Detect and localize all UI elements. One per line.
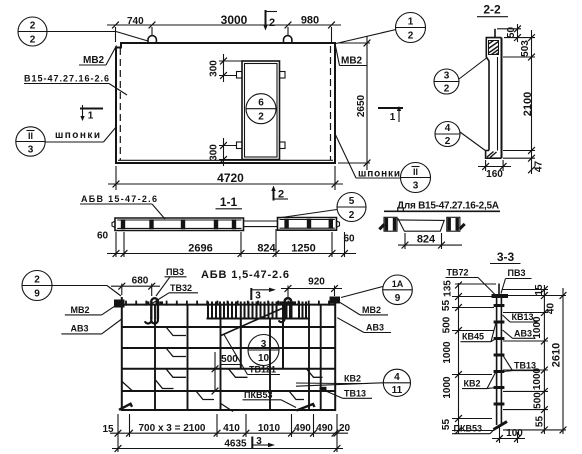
mesh cross-bar end ticks (top): [126, 301, 329, 306]
lintel band bottom bar: [207, 318, 310, 320]
svg-text:500: 500: [533, 392, 544, 409]
svg-text:МВ2: МВ2: [71, 305, 90, 315]
label TV32: [152, 283, 198, 304]
svg-text:2-2: 2-2: [483, 3, 501, 17]
svg-text:3: 3: [256, 436, 262, 447]
svg-text:20: 20: [339, 423, 351, 434]
label KV45: [461, 323, 497, 342]
svg-text:15: 15: [102, 424, 114, 435]
detail body (2,5A variant): [397, 218, 444, 231]
svg-text:60: 60: [97, 231, 109, 242]
lifting loop PV3 (left): [145, 298, 163, 323]
section mark 3 (bottom): [252, 436, 275, 448]
bottom dim extensions: [118, 414, 337, 452]
corner chamfer leader: [116, 32, 148, 42]
svg-text:2100: 2100: [522, 92, 534, 116]
svg-text:2696: 2696: [188, 243, 212, 255]
hidden edge dashed left: [119, 48, 121, 160]
svg-text:ТВ72: ТВ72: [447, 268, 469, 278]
title 2-2: [477, 3, 508, 17]
mesh horizontal bars: [121, 327, 336, 391]
label TV13 (plan): [327, 389, 372, 399]
mesh outline: [121, 297, 336, 411]
svg-text:11: 11: [392, 385, 403, 396]
bottom dim line 2 (4635): [112, 439, 343, 452]
svg-text:700 x 3 = 2100: 700 x 3 = 2100: [138, 423, 205, 434]
corner piece bottom-left: [119, 404, 132, 410]
detail left end block: [379, 217, 397, 231]
svg-text:АВ3: АВ3: [514, 328, 532, 338]
3-3 left dim extensions: [452, 284, 496, 431]
label TV121: [224, 335, 280, 375]
section mark 1 (right): [378, 106, 403, 123]
1-1 right block: [278, 218, 340, 231]
svg-text:680: 680: [132, 276, 149, 287]
svg-text:2: 2: [408, 31, 414, 42]
label KV13: [503, 312, 538, 322]
3-3 outer dim line 2610: [551, 288, 567, 434]
svg-text:47: 47: [534, 161, 545, 173]
spacer ticks on mesh: [122, 327, 323, 412]
opening tab bottom-left: [237, 142, 243, 149]
dim 160 (2-2): [478, 160, 511, 180]
svg-text:шпонки: шпонки: [55, 130, 100, 141]
svg-text:3: 3: [255, 291, 261, 302]
svg-text:ТВ13: ТВ13: [344, 389, 366, 399]
svg-text:ПВ3: ПВ3: [508, 268, 526, 278]
svg-text:ТВ32: ТВ32: [170, 283, 192, 293]
dim 100 (3-3 bottom): [492, 427, 525, 443]
dim 2100 (2-2): [503, 64, 535, 174]
callout circle 5/2: [278, 193, 366, 222]
svg-text:3-3: 3-3: [497, 250, 515, 264]
opening tab top-right: [280, 72, 286, 79]
label MV2 (plan left): [65, 302, 121, 315]
label ABV 15-47-2.6 (1-1): [80, 194, 165, 219]
svg-text:АБВ 15-47-2.6: АБВ 15-47-2.6: [81, 194, 157, 204]
svg-text:5: 5: [349, 196, 355, 207]
svg-text:15: 15: [534, 284, 545, 296]
svg-text:2650: 2650: [356, 94, 367, 117]
label MB2 (top left): [79, 46, 117, 67]
svg-text:4635: 4635: [224, 439, 247, 450]
3-3 bar body: [497, 284, 502, 426]
svg-text:1А: 1А: [392, 279, 404, 289]
hidden edge dashed right: [330, 46, 332, 160]
svg-text:10: 10: [258, 353, 270, 364]
lifting loop right (plan): [284, 36, 292, 43]
svg-text:АВ3: АВ3: [366, 323, 384, 333]
svg-text:60: 60: [343, 234, 355, 245]
embed plate top-left corner: [114, 300, 125, 308]
label KV2 (3-3): [462, 372, 496, 389]
svg-text:4720: 4720: [217, 171, 244, 185]
top dimension line: [107, 22, 341, 42]
svg-text:490: 490: [316, 423, 333, 434]
lifting loop left (plan): [148, 36, 156, 43]
opening tab top-left: [237, 72, 243, 79]
3-3 top bar blob: [492, 294, 509, 298]
opening side post left: [240, 302, 242, 369]
dim 503 (2-2): [503, 30, 535, 64]
svg-text:II: II: [413, 167, 418, 177]
callout circle 2/2: [18, 17, 116, 46]
svg-text:2: 2: [30, 35, 36, 46]
1-1 right block ribs: [284, 219, 333, 229]
svg-text:ПКВ53: ПКВ53: [454, 424, 482, 434]
section mark 1 (left): [80, 105, 103, 122]
opening inner rect: [245, 64, 278, 158]
dim 50 (2-2): [497, 24, 521, 42]
svg-text:300: 300: [209, 144, 220, 161]
svg-text:135: 135: [443, 280, 454, 297]
svg-text:2: 2: [349, 210, 355, 221]
panel outline (plan view): [116, 43, 335, 163]
label AV3 (plan left): [61, 319, 121, 334]
section 2-2 body: [486, 29, 502, 158]
dim 300 (opening top): [209, 54, 243, 82]
svg-text:ПВ3: ПВ3: [166, 267, 184, 277]
callout circle II/3 (right): [401, 163, 431, 193]
lintel dense bars: [208, 302, 306, 320]
3-3 bottom corner piece: [494, 422, 508, 430]
svg-text:МВ2: МВ2: [341, 56, 363, 67]
svg-text:ПКВ53: ПКВ53: [244, 390, 272, 400]
label shponki (left): [45, 127, 116, 143]
label AV3 (3-3): [503, 328, 536, 338]
svg-text:50: 50: [506, 27, 517, 39]
callout circle 3/2: [434, 58, 487, 95]
svg-text:ТВ13: ТВ13: [514, 361, 536, 371]
callout circle II/3 (left): [16, 127, 45, 156]
svg-text:55: 55: [441, 419, 452, 431]
corner piece PKV53: [297, 404, 315, 411]
label MB2 (top right): [336, 46, 368, 67]
dim 824 (detail): [398, 233, 462, 249]
svg-text:503: 503: [520, 40, 531, 57]
3-3 cross bar dashes: [494, 304, 505, 406]
dim 300 (opening bottom): [209, 138, 243, 166]
embed hatch (2-2 bottom): [487, 152, 497, 158]
embed plate hatch (2-2 top): [489, 41, 499, 55]
svg-text:2: 2: [34, 275, 40, 286]
opening side post right: [282, 302, 284, 369]
opening outer rect: [242, 61, 280, 160]
svg-text:9: 9: [34, 289, 40, 300]
svg-text:500: 500: [221, 354, 238, 365]
label AV3 (plan right): [337, 318, 391, 333]
svg-text:МВ2: МВ2: [83, 55, 105, 66]
1-1 dimension line: [107, 229, 356, 257]
svg-text:980: 980: [301, 15, 319, 27]
svg-text:2: 2: [445, 136, 451, 147]
dim 2650: [338, 36, 370, 170]
label B15-47.27.16-2.6: [24, 74, 127, 96]
callout circle 2/9: [22, 271, 121, 301]
1-1 left block: [112, 218, 244, 231]
3-3 right dim line: [541, 285, 548, 434]
section mark 2 (bottom): [271, 186, 288, 201]
svg-text:3000: 3000: [221, 13, 248, 27]
svg-text:1010: 1010: [258, 423, 281, 434]
embed plate top-right corner: [330, 297, 341, 304]
opening tab bottom-right: [280, 142, 286, 149]
embed square KV2: [320, 387, 327, 392]
title 3-3: [490, 250, 521, 264]
svg-text:1-1: 1-1: [220, 195, 238, 209]
svg-text:2: 2: [258, 112, 264, 123]
svg-text:2: 2: [444, 84, 450, 95]
mesh vertical bars: [155, 305, 321, 410]
bent bar diagonal: [221, 308, 283, 336]
svg-text:410: 410: [223, 423, 240, 434]
svg-text:100: 100: [506, 428, 523, 439]
svg-text:3: 3: [28, 145, 34, 156]
dim 680: [111, 276, 160, 297]
svg-text:КВ45: КВ45: [462, 332, 484, 342]
label PV3 (3-3): [501, 268, 532, 294]
3-3 left dim line: [455, 282, 462, 434]
dim 47 (2-2): [503, 155, 545, 173]
svg-text:ТВ121: ТВ121: [249, 365, 276, 375]
svg-text:1: 1: [390, 112, 396, 123]
svg-text:490: 490: [294, 423, 311, 434]
label shponki (right): [336, 135, 401, 180]
svg-text:40: 40: [546, 303, 557, 315]
svg-text:1: 1: [88, 111, 94, 122]
svg-text:824: 824: [417, 234, 436, 246]
svg-text:КВ2: КВ2: [464, 379, 481, 389]
svg-text:1: 1: [408, 17, 414, 28]
svg-text:55: 55: [535, 416, 546, 428]
bottom dim line 1: [110, 430, 348, 437]
svg-text:3: 3: [444, 71, 450, 82]
title 1-1: [216, 195, 243, 209]
label TV72: [446, 268, 496, 296]
svg-text:АВ3: АВ3: [71, 324, 89, 334]
label KV2 (plan): [296, 374, 368, 384]
callout circle 1/2: [336, 13, 426, 44]
svg-text:1250: 1250: [291, 243, 315, 255]
callout circle 4/2: [435, 122, 486, 152]
svg-text:300: 300: [209, 60, 220, 77]
dim 500 (plan): [212, 352, 240, 394]
svg-text:КВ2: КВ2: [344, 374, 361, 384]
dim 4720: [108, 166, 343, 190]
label PKV53 (3-3): [452, 424, 496, 434]
svg-text:920: 920: [308, 277, 325, 288]
svg-text:9: 9: [395, 293, 401, 304]
label PKV53 (plan): [243, 390, 297, 408]
svg-text:3: 3: [261, 339, 267, 350]
label TV13 (3-3): [503, 356, 540, 372]
svg-text:4: 4: [394, 372, 400, 383]
svg-text:55: 55: [441, 300, 452, 312]
svg-text:2: 2: [30, 21, 36, 32]
svg-text:500: 500: [442, 316, 453, 333]
svg-text:КВ13: КВ13: [512, 312, 534, 322]
svg-text:В15-47.27.16-2.6: В15-47.27.16-2.6: [24, 74, 109, 84]
callout circle 4/11: [296, 369, 411, 396]
label PV3 (plan): [156, 267, 187, 296]
svg-text:6: 6: [258, 98, 264, 109]
callout circle 1A/9: [341, 275, 412, 305]
title Dlya B15-47.27.16-2,5A: [384, 201, 500, 212]
svg-text:160: 160: [486, 169, 503, 180]
svg-text:740: 740: [127, 16, 144, 27]
svg-text:3: 3: [413, 181, 419, 192]
label MV2 (plan right): [337, 301, 388, 315]
detail right end block: [447, 217, 465, 231]
svg-text:2610: 2610: [551, 343, 563, 367]
svg-text:2: 2: [269, 17, 275, 29]
svg-text:II: II: [28, 131, 33, 141]
callout circle 6/2: [246, 94, 276, 124]
1-1 middle web: [244, 221, 278, 227]
svg-text:2: 2: [278, 189, 284, 201]
svg-text:824: 824: [257, 243, 276, 255]
svg-text:4: 4: [445, 123, 451, 134]
callout circle 3/10: [248, 335, 279, 366]
lifting loop (right, in lintel): [279, 298, 296, 322]
svg-text:1000: 1000: [442, 341, 453, 364]
section mark 2 (top): [263, 10, 277, 31]
svg-text:1000: 1000: [442, 376, 453, 399]
3-3 right dim extensions: [502, 290, 566, 430]
dim 920: [281, 277, 342, 300]
svg-text:АБВ 1,5-47-2.6: АБВ 1,5-47-2.6: [201, 269, 289, 281]
1-1 left block ribs: [121, 219, 236, 229]
section mark 3 (top): [251, 288, 276, 302]
svg-text:МВ2: МВ2: [362, 305, 381, 315]
svg-text:Для В15-47.27.16-2,5А: Для В15-47.27.16-2,5А: [397, 201, 499, 212]
